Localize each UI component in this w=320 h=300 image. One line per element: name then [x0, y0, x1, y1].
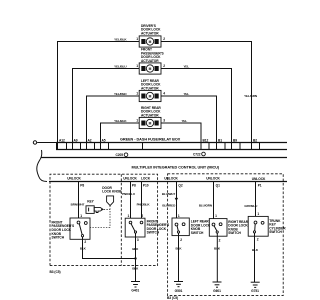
svg-text:P8: P8	[132, 184, 136, 188]
svg-text:BLK: BLK	[214, 247, 221, 251]
svg-text:3: 3	[163, 119, 165, 123]
svg-text:2: 2	[180, 238, 182, 242]
svg-text:BRN/WHT: BRN/WHT	[71, 203, 85, 207]
svg-text:BLK: BLK	[176, 247, 183, 251]
svg-text:1: 1	[257, 212, 259, 216]
svg-text:1: 1	[80, 214, 82, 218]
svg-text:2: 2	[141, 214, 143, 218]
svg-text:YEL/BLU: YEL/BLU	[114, 65, 127, 69]
svg-text:BLU/ORN: BLU/ORN	[199, 203, 212, 207]
svg-text:ACTUATOR: ACTUATOR	[141, 31, 159, 35]
svg-text:G751: G751	[251, 289, 259, 293]
svg-text:B3 (C5): B3 (C5)	[50, 270, 61, 274]
svg-text:P1: P1	[258, 183, 262, 187]
svg-text:1: 1	[136, 37, 138, 41]
svg-text:BLU/RED: BLU/RED	[162, 203, 176, 207]
svg-text:ACTUATOR: ACTUATOR	[141, 86, 159, 90]
svg-text:BLK: BLK	[252, 248, 259, 252]
svg-text:1: 1	[136, 64, 138, 68]
svg-text:G401: G401	[131, 289, 139, 293]
svg-text:1: 1	[136, 92, 138, 96]
svg-text:B3 (C5): B3 (C5)	[167, 296, 178, 300]
svg-text:B2: B2	[253, 138, 257, 142]
svg-text:1: 1	[136, 119, 138, 123]
svg-text:SWITCH: SWITCH	[228, 231, 241, 235]
svg-text:P8: P8	[80, 184, 84, 188]
svg-text:C205: C205	[116, 153, 124, 157]
svg-text:Q2: Q2	[178, 184, 182, 188]
svg-text:YEL/GRN: YEL/GRN	[244, 94, 257, 98]
svg-text:UNLOCK: UNLOCK	[164, 177, 178, 181]
svg-text:BLK: BLK	[132, 247, 139, 251]
svg-text:YEL/RED: YEL/RED	[114, 92, 127, 96]
svg-text:BLK: BLK	[80, 247, 87, 251]
svg-text:2: 2	[163, 37, 165, 41]
svg-text:1: 1	[215, 214, 217, 218]
svg-text:GREEN - DASH FUSE/RELAY BOX: GREEN - DASH FUSE/RELAY BOX	[120, 138, 181, 142]
svg-text:G601: G601	[213, 289, 221, 293]
svg-text:SWITCH: SWITCH	[269, 230, 282, 234]
svg-text:YEL/BLK: YEL/BLK	[114, 38, 127, 42]
svg-text:MULTIPLEX INTEGRATED CONTROL U: MULTIPLEX INTEGRATED CONTROL UNIT (MICU)	[132, 166, 220, 170]
svg-text:4: 4	[163, 92, 165, 96]
svg-text:2: 2	[257, 238, 259, 242]
svg-text:2: 2	[84, 240, 86, 244]
svg-text:A12: A12	[59, 138, 65, 142]
svg-text:YEL: YEL	[182, 119, 188, 123]
svg-text:ACTUATOR: ACTUATOR	[141, 114, 159, 118]
svg-text:C722: C722	[193, 152, 201, 156]
svg-text:B12: B12	[203, 138, 209, 142]
svg-text:YEL/BLK: YEL/BLK	[114, 119, 127, 123]
svg-text:Q1: Q1	[216, 183, 220, 187]
svg-text:SWITCH: SWITCH	[52, 236, 65, 240]
svg-text:1: 1	[178, 214, 180, 218]
svg-text:UNLOCK: UNLOCK	[252, 177, 266, 181]
svg-text:B1: B1	[218, 138, 222, 142]
svg-text:UNLOCK: UNLOCK	[206, 177, 220, 181]
svg-text:UNLOCK: UNLOCK	[67, 177, 81, 181]
svg-text:2: 2	[219, 238, 221, 242]
svg-text:BLK: BLK	[132, 266, 139, 270]
svg-text:SWITCH: SWITCH	[147, 231, 160, 235]
svg-text:G501: G501	[175, 289, 183, 293]
svg-text:BLU/WHT: BLU/WHT	[162, 192, 176, 196]
svg-text:PNK/BLK: PNK/BLK	[137, 203, 151, 207]
svg-text:2: 2	[163, 64, 165, 68]
svg-text:A2: A2	[88, 138, 92, 142]
svg-text:KEY: KEY	[87, 200, 94, 204]
svg-text:SWITCH: SWITCH	[191, 231, 204, 235]
svg-text:LOCK: LOCK	[141, 177, 151, 181]
svg-text:1: 1	[128, 214, 130, 218]
svg-text:ACTUATOR: ACTUATOR	[141, 59, 159, 63]
svg-text:YEL: YEL	[184, 92, 190, 96]
svg-text:YEL: YEL	[184, 65, 190, 69]
svg-text:P10: P10	[143, 184, 149, 188]
svg-text:LOCK KNOB: LOCK KNOB	[102, 190, 122, 194]
svg-text:PNK/BLU: PNK/BLU	[122, 192, 136, 196]
svg-text:A5: A5	[102, 138, 106, 142]
svg-text:3: 3	[137, 238, 139, 242]
svg-text:A9: A9	[74, 138, 78, 142]
svg-text:UNLOCK: UNLOCK	[123, 177, 137, 181]
svg-text:B9: B9	[233, 138, 237, 142]
svg-text:GRY/BLU: GRY/BLU	[244, 204, 258, 208]
